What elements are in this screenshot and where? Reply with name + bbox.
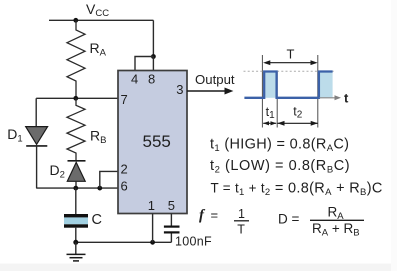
label t2 dimension: [277, 104, 318, 125]
capacitor C: [64, 214, 88, 228]
label D2: [50, 162, 65, 181]
svg-text:3: 3: [176, 82, 183, 97]
pin 7: [121, 92, 128, 107]
label t1 dimension: [263, 105, 276, 126]
svg-text:2: 2: [121, 162, 128, 177]
equation D duty cycle: [278, 205, 364, 239]
wire pin6 rail: [36, 187, 118, 189]
time axis arrow: [320, 91, 350, 106]
label Output: [195, 72, 235, 87]
pin 3: [176, 82, 183, 97]
node pin4/pin8 junction: [151, 54, 156, 59]
diode D2: [67, 161, 85, 188]
svg-text:D =: D =: [278, 212, 300, 227]
pin 6: [121, 179, 128, 194]
pulse fill 1: [265, 72, 276, 98]
svg-text:1: 1: [238, 207, 245, 221]
op-amp U1 555 IC body: [118, 71, 187, 214]
node ground junction: [73, 240, 78, 245]
node measure line mid: [276, 72, 278, 128]
capacitor 100nF: [164, 227, 180, 243]
wire pin7: [36, 97, 118, 99]
ground: [67, 242, 86, 261]
wire C bottom lead: [75, 228, 77, 243]
svg-text:555: 555: [143, 132, 171, 151]
equation t2 LOW: [210, 158, 350, 176]
pin 1: [148, 198, 155, 213]
svg-text:100nF: 100nF: [175, 234, 212, 248]
node D2/C junction: [73, 186, 78, 191]
svg-text:T = t1 + t2 = 0.8(RA + RB)C: T = t1 + t2 = 0.8(RA + RB)C: [211, 180, 383, 198]
wire pin1 to ground rail: [152, 214, 154, 243]
diode D1: [26, 127, 48, 146]
node Vcc/RA junction: [73, 18, 78, 23]
svg-text:T: T: [287, 47, 295, 62]
label D1: [7, 126, 22, 145]
label C: [92, 212, 102, 228]
label 100nF: [175, 234, 212, 248]
wire pin2: [100, 171, 118, 188]
pin 8: [148, 71, 155, 86]
svg-text:4: 4: [131, 71, 138, 86]
svg-text:C: C: [92, 212, 102, 228]
wire Vcc rail: [49, 19, 153, 21]
svg-text:1: 1: [148, 198, 155, 213]
pin 4: [131, 71, 138, 86]
equation f = 1/T: [199, 207, 249, 236]
svg-text:RA + RB: RA + RB: [312, 221, 360, 239]
label RA: [90, 40, 107, 59]
svg-text:T: T: [237, 222, 245, 236]
svg-text:5: 5: [168, 198, 175, 213]
node measure line right: [317, 55, 319, 128]
wire pin5 lead: [170, 214, 172, 226]
wire output arrow pin3: [187, 88, 233, 95]
pin 5: [168, 198, 175, 213]
node RA/RB/pin7 junction: [73, 96, 78, 101]
label RB: [90, 128, 106, 147]
wire ground rail: [76, 241, 172, 243]
wire pin4 pin8 loop: [135, 57, 153, 71]
wire D1 to bottom rail: [36, 146, 38, 188]
node pin2 junction: [97, 186, 102, 191]
svg-text:Output: Output: [195, 72, 235, 87]
label T dimension: [263, 47, 318, 66]
svg-text:8: 8: [148, 71, 155, 86]
waveform trace: [244, 72, 332, 98]
svg-text:7: 7: [121, 92, 128, 107]
resistor RA: [67, 20, 85, 98]
wire C top lead: [75, 188, 77, 214]
equation T total: [211, 180, 383, 198]
dotted high level line: [244, 70, 335, 72]
svg-text:t: t: [344, 91, 349, 106]
power Vcc: [86, 1, 109, 19]
wire pin7 to D1: [35, 98, 37, 126]
node measure line left: [261, 55, 263, 128]
equation t1 HIGH: [210, 137, 349, 155]
wire Vcc to pin8: [152, 20, 154, 56]
svg-text:6: 6: [121, 179, 128, 194]
resistor RB: [67, 98, 85, 161]
pulse fill 2: [320, 72, 333, 98]
node pin1 junction: [150, 240, 155, 245]
pin 2: [121, 162, 128, 177]
svg-text:=: =: [211, 208, 219, 223]
